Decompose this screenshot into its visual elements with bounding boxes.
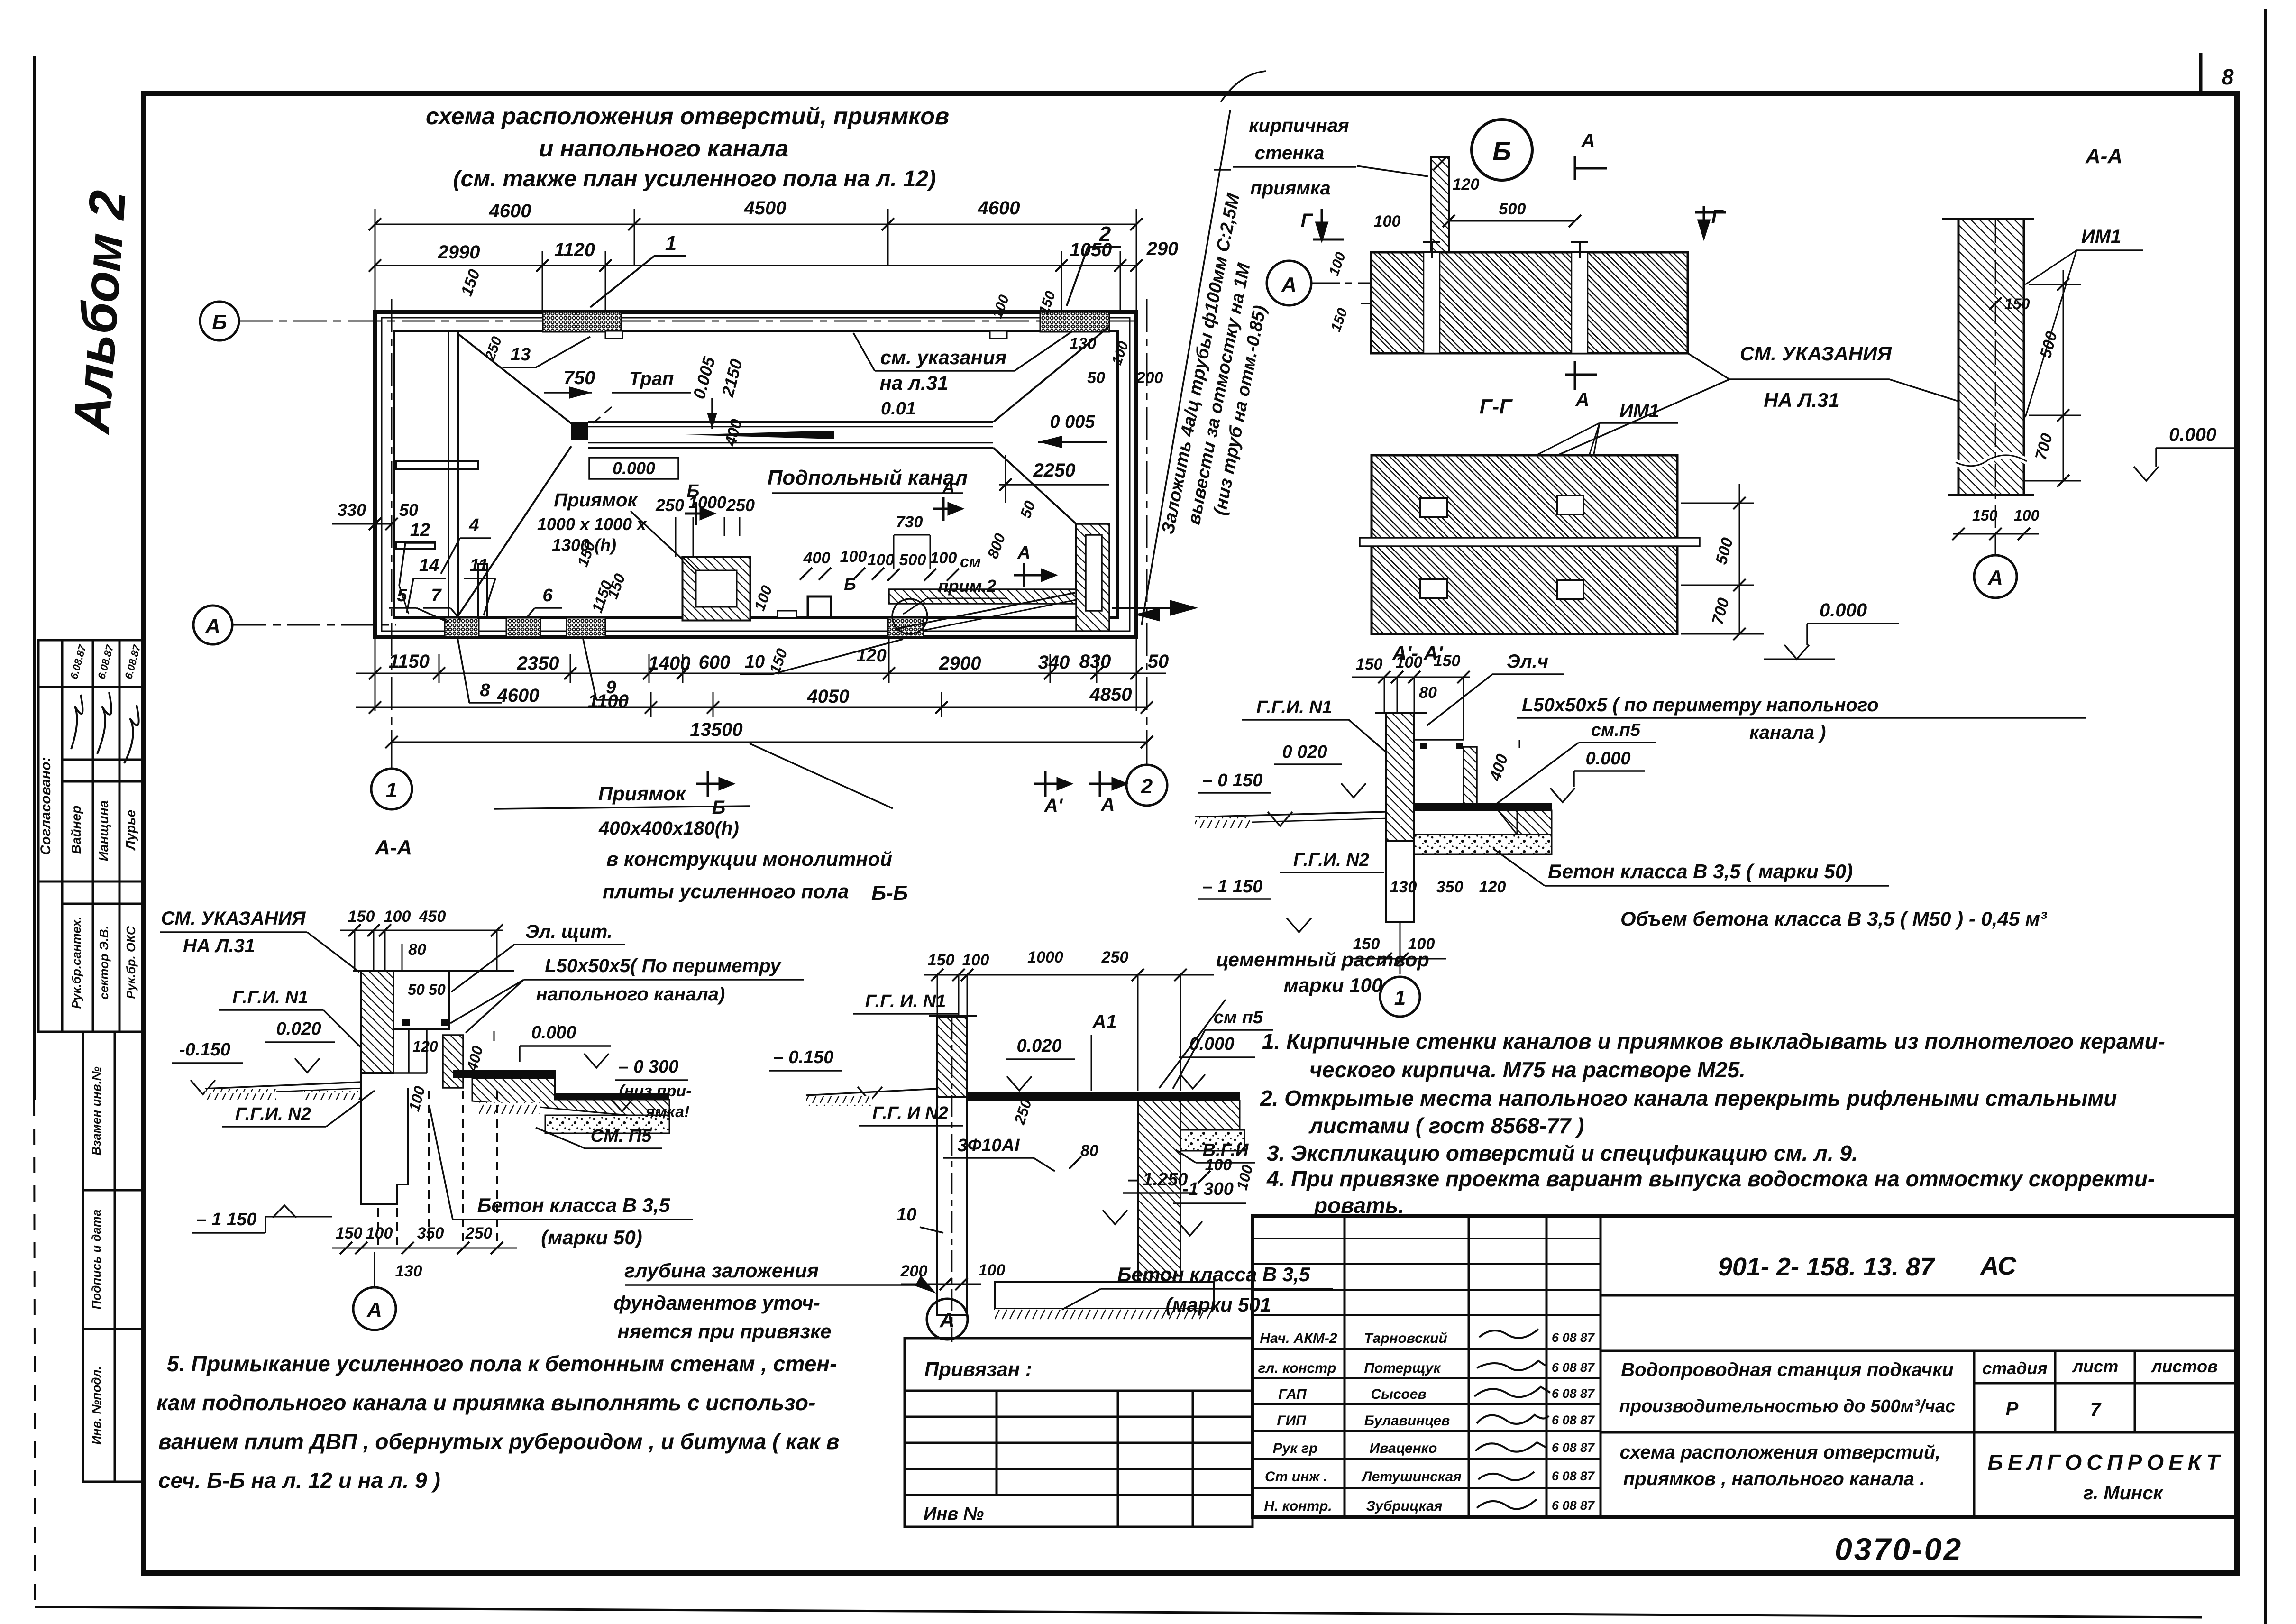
svg-text:130: 130	[395, 1262, 422, 1280]
label СМ П5 АА	[536, 1126, 662, 1148]
label -0 300 низ приямка	[610, 1057, 692, 1121]
svg-text:Б: Б	[712, 797, 725, 818]
svg-text:Б-Б: Б-Б	[871, 881, 908, 905]
level 0.000 at block	[1764, 600, 1899, 659]
svg-text:7: 7	[2090, 1399, 2102, 1420]
svg-text:13500: 13500	[690, 719, 742, 740]
dim 2250	[999, 455, 1109, 503]
svg-text:(марки 501: (марки 501	[1166, 1294, 1271, 1316]
corner channel hatched band	[889, 524, 1109, 631]
dim 400 rotated detail	[1486, 740, 1519, 783]
svg-text:приямков , напольного канала: приямков , напольного канала .	[1623, 1468, 1925, 1489]
svg-text:А: А	[1281, 273, 1297, 296]
svg-text:ванием плит ДВП , обернутых: ванием плит ДВП , обернутых рубероидом ,…	[158, 1429, 840, 1454]
AA top dim line	[340, 930, 503, 971]
level -1300	[1173, 1163, 1256, 1236]
opening mark 5	[389, 586, 448, 622]
svg-text:250: 250	[1101, 948, 1129, 966]
slope text 0.005 rotated	[689, 354, 719, 429]
svg-text:14: 14	[419, 556, 439, 576]
AA niche lines	[393, 1029, 427, 1073]
dimension row top-1	[375, 209, 1136, 313]
svg-text:250: 250	[726, 495, 755, 515]
svg-text:901- 2- 158. 13. 87: 901- 2- 158. 13. 87	[1718, 1253, 1936, 1281]
svg-text:50: 50	[429, 981, 446, 998]
wall opening hatch bottom-d	[888, 618, 924, 637]
svg-text:-1 300: -1 300	[1182, 1179, 1234, 1199]
svg-text:0.000: 0.000	[2169, 424, 2216, 445]
label ГГИ N1 ББ	[853, 991, 958, 1014]
title block columns	[1345, 1216, 1601, 1517]
svg-text:схема расположения отверстий,: схема расположения отверстий, приямков	[426, 103, 949, 129]
svg-text:0.000: 0.000	[1189, 1034, 1234, 1054]
pipe note leader	[1142, 110, 1230, 625]
svg-text:400х400х180(h): 400х400х180(h)	[598, 818, 739, 839]
funnel line lower	[458, 446, 571, 616]
svg-text:8: 8	[2222, 64, 2234, 89]
svg-text:730: 730	[896, 513, 923, 531]
svg-text:глубина заложения: глубина заложения	[624, 1259, 819, 1282]
top wall niche b	[990, 331, 1007, 339]
svg-text:Привязан :: Привязан :	[924, 1358, 1032, 1380]
svg-text:ИМ1: ИМ1	[1619, 401, 1659, 422]
svg-text:Эл. щит.: Эл. щит.	[525, 921, 613, 942]
svg-text:СМ. П5: СМ. П5	[591, 1126, 652, 1146]
svg-text:Рук гр: Рук гр	[1273, 1440, 1318, 1456]
svg-text:Ст инж .: Ст инж .	[1265, 1469, 1327, 1485]
floor channel walls	[588, 422, 993, 448]
svg-text:(марки 50): (марки 50)	[541, 1226, 642, 1248]
signature labels	[1258, 1330, 1337, 1514]
svg-text:Летушинская: Летушинская	[1361, 1469, 1462, 1485]
label ГГИ N1 АА	[219, 988, 360, 1047]
pipe note bracket	[1221, 71, 1266, 102]
svg-text:Б: Б	[844, 574, 856, 594]
axis bubble 1	[371, 769, 412, 809]
opening mark 8	[457, 638, 502, 703]
block dim line	[1681, 484, 1764, 634]
detail dims 150 100 bottom	[1352, 922, 1446, 974]
label см П5 ББ	[1173, 1008, 1273, 1089]
sheet number box	[2201, 53, 2234, 93]
svg-text:1000: 1000	[688, 493, 726, 512]
slab plan hatched	[1371, 252, 1688, 353]
pipe note rotated	[1158, 191, 1290, 544]
opening mark 4	[441, 515, 491, 574]
dim 330 left	[332, 500, 398, 530]
label ИМ1 right	[2025, 226, 2143, 417]
dim 500 pillar	[1443, 200, 1581, 227]
svg-text:А: А	[939, 1309, 955, 1332]
svg-text:80: 80	[408, 941, 426, 959]
section flag Б top	[685, 481, 713, 525]
svg-text:(низ при-: (низ при-	[619, 1082, 691, 1100]
svg-text:А: А	[366, 1298, 382, 1321]
svg-text:Г.Г. И N2: Г.Г. И N2	[872, 1103, 948, 1123]
section flag А' in plan	[933, 477, 961, 521]
svg-text:ровать.: ровать.	[1313, 1193, 1404, 1218]
svg-text:6 08 87: 6 08 87	[1552, 1330, 1595, 1345]
label СМ П5 detail	[1493, 720, 1656, 806]
svg-text:1: 1	[386, 779, 397, 802]
svg-text:Тарновский: Тарновский	[1364, 1330, 1447, 1346]
wall section А-А tall	[1942, 219, 2034, 536]
svg-text:Эл.ч: Эл.ч	[1507, 651, 1548, 672]
svg-text:Нач. АКМ-2: Нач. АКМ-2	[1260, 1330, 1337, 1346]
svg-text:100: 100	[1374, 212, 1401, 230]
svg-text:500: 500	[899, 551, 926, 569]
svg-text:290: 290	[1146, 239, 1179, 259]
svg-text:200: 200	[900, 1262, 928, 1280]
svg-text:А-А: А-А	[375, 836, 412, 859]
svg-text:4050: 4050	[807, 686, 850, 707]
opening mark 9	[583, 639, 628, 700]
slab anchor T left	[1423, 242, 1440, 258]
AA dim 50 50	[408, 981, 446, 998]
svg-text:Б: Б	[212, 311, 227, 334]
svg-text:1100: 1100	[588, 691, 629, 712]
BB pit bottom slab	[995, 1282, 1214, 1321]
paper right edge	[2264, 9, 2267, 1624]
leader to pit note	[750, 743, 893, 808]
svg-text:200: 200	[1136, 369, 1163, 387]
channel flow arrow	[685, 431, 834, 439]
svg-text:2250: 2250	[1033, 460, 1076, 481]
svg-text:0.000: 0.000	[1820, 600, 1867, 621]
svg-text:830: 830	[1079, 651, 1111, 672]
opening mark 13	[503, 337, 590, 367]
pit leader line	[631, 511, 683, 560]
BB floor right hatch	[1180, 1101, 1240, 1130]
svg-text:Инв. №подл.: Инв. №подл.	[89, 1366, 103, 1445]
label L50 АА	[450, 955, 804, 1033]
svg-text:120: 120	[856, 646, 886, 666]
svg-text:СМ. УКАЗАНИЯ: СМ. УКАЗАНИЯ	[161, 908, 306, 929]
svg-text:0 005: 0 005	[1050, 412, 1095, 432]
BB dims 150 100 1000 250	[928, 948, 1129, 969]
svg-text:А': А'	[942, 477, 960, 497]
channel right funnel lower	[993, 448, 1076, 524]
svg-text:цементный раствор: цементный раствор	[1216, 948, 1429, 971]
svg-text:Г.Г.И. N1: Г.Г.И. N1	[1256, 697, 1332, 717]
channel right funnel upper	[993, 326, 1109, 422]
svg-text:100: 100	[962, 951, 989, 969]
svg-text:лист: лист	[2072, 1357, 2118, 1376]
svg-text:А-А: А-А	[2085, 145, 2122, 168]
svg-text:80: 80	[1419, 684, 1437, 702]
AA lower floor	[555, 1093, 669, 1100]
level 0 020 detail	[1274, 742, 1366, 798]
label глубина заложения	[613, 1259, 936, 1342]
svg-text:и напольного канала: и напольного канала	[539, 135, 788, 162]
svg-text:см п5: см п5	[1214, 1008, 1263, 1028]
svg-text:ческого кирпича. М75 на раство: ческого кирпича. М75 на растворе М25.	[1309, 1057, 1746, 1082]
AA axis bubble	[353, 1252, 396, 1330]
svg-text:130: 130	[1070, 335, 1097, 353]
brick pillar	[1431, 157, 1479, 255]
svg-text:2: 2	[1099, 222, 1111, 246]
pit dim ticks	[676, 517, 740, 557]
level -1 150 АА	[192, 1205, 332, 1233]
axis line А	[233, 624, 396, 626]
svg-text:А: А	[1575, 389, 1590, 410]
svg-text:50: 50	[1087, 369, 1105, 387]
svg-text:А: А	[1101, 794, 1115, 815]
svg-text:150: 150	[1972, 507, 1998, 524]
svg-text:няется при привязке: няется при привязке	[617, 1320, 831, 1342]
svg-text:2900: 2900	[939, 653, 981, 674]
svg-text:3. Экспликацию отверстий и: 3. Экспликацию отверстий и спецификацию …	[1267, 1141, 1858, 1165]
detail dim line	[1352, 677, 1470, 740]
svg-text:на л.31: на л.31	[880, 372, 949, 394]
AA angle post	[443, 1031, 494, 1088]
svg-text:Бетон класса В 3,5: Бетон класса В 3,5	[1117, 1263, 1310, 1285]
opening mark 2	[1067, 222, 1121, 306]
label Подпольный канал	[768, 466, 968, 493]
svg-text:1000 х 1000 х: 1000 х 1000 х	[537, 514, 647, 534]
svg-text:НА Л.31: НА Л.31	[183, 936, 255, 956]
signature squiggles	[1474, 1329, 1550, 1509]
dim ticks row	[800, 568, 959, 581]
svg-text:100: 100	[366, 1224, 393, 1242]
svg-text:Подпись и дата: Подпись и дата	[89, 1210, 103, 1310]
svg-text:6 08 87: 6 08 87	[1552, 1469, 1595, 1483]
detail wall hatched	[1375, 713, 1427, 922]
opening mark 12	[399, 520, 436, 614]
svg-text:2. Открытые места напольного: 2. Открытые места напольного канала пере…	[1260, 1086, 2117, 1110]
label Бетон класса ББ	[1062, 1263, 1333, 1316]
title block left rows	[1253, 1239, 1601, 1488]
svg-text:1150: 1150	[389, 651, 430, 672]
svg-text:Лурье: Лурье	[123, 810, 138, 851]
svg-text:4500: 4500	[744, 198, 787, 219]
level -0.150 ББ	[769, 1047, 882, 1101]
svg-text:6: 6	[542, 586, 553, 606]
section flag А bottom	[1089, 771, 1125, 815]
label ГГИ N2 detail	[1280, 850, 1384, 872]
axis bubble А right	[1974, 536, 2017, 598]
svg-text:12: 12	[410, 520, 430, 540]
privyazan table	[905, 1338, 1253, 1527]
svg-text:– 0.150: – 0.150	[774, 1047, 834, 1067]
bottom wall niche	[778, 611, 796, 618]
svg-text:А1: А1	[1092, 1011, 1116, 1032]
svg-text:6 08 87: 6 08 87	[1552, 1386, 1595, 1401]
axis bubble 2	[1126, 765, 1167, 806]
svg-text:2: 2	[1141, 775, 1153, 798]
BB dim 100 right	[1198, 1156, 1232, 1183]
svg-text:0 020: 0 020	[1282, 742, 1327, 762]
approval signatures	[71, 692, 139, 763]
level 0.020 ББ	[1006, 1036, 1075, 1091]
svg-text:1. Кирпичные стенки каналов и: 1. Кирпичные стенки каналов и приямков в…	[1262, 1029, 2165, 1054]
leader указания to block	[1536, 379, 1729, 465]
svg-text:А: А	[205, 615, 220, 638]
svg-text:340: 340	[1038, 652, 1070, 673]
level 0.000 ББ	[1179, 1034, 1255, 1089]
svg-text:L50x50x5 ( по периметру наполь: L50x50x5 ( по периметру напольного	[1522, 695, 1879, 716]
leader указания to wall	[1688, 353, 1964, 403]
svg-text:(см. также план усиленного пол: (см. также план усиленного пола на л. 12…	[453, 166, 936, 192]
svg-text:Бетон класса В 3,5 ( марки 50: Бетон класса В 3,5 ( марки 50)	[1548, 860, 1853, 882]
svg-text:напольного канала): напольного канала)	[536, 984, 725, 1005]
svg-text:приямка: приямка	[1250, 178, 1330, 199]
AA underfloor hatch	[472, 1078, 669, 1119]
svg-text:– 1 150: – 1 150	[1203, 877, 1263, 897]
section flag А top	[1575, 130, 1607, 180]
svg-text:100: 100	[840, 548, 867, 566]
detail floor slab	[1414, 803, 1552, 854]
svg-text:см. указания: см. указания	[880, 346, 1007, 368]
label цементный раствор	[1159, 948, 1429, 1088]
label СМ УКАЗАНИЯ	[1740, 342, 1893, 411]
floor drain	[571, 422, 588, 440]
svg-text:2350: 2350	[517, 653, 559, 674]
dims 400 100 row	[803, 548, 981, 571]
svg-text:Н. контр.: Н. контр.	[1264, 1498, 1332, 1514]
BB dim 80	[1069, 1142, 1098, 1169]
svg-text:450: 450	[419, 908, 446, 926]
svg-text:Булавинцев: Булавинцев	[1364, 1413, 1450, 1429]
svg-text:кирпичная: кирпичная	[1249, 115, 1349, 136]
svg-text:1000: 1000	[1027, 948, 1063, 966]
svg-text:фундаментов уточ-: фундаментов уточ-	[613, 1292, 820, 1314]
label ГГИ N2 АА	[222, 1091, 375, 1127]
svg-text:500: 500	[1499, 200, 1526, 218]
BB bottom dims 200 100	[900, 1261, 1006, 1290]
approval dates	[68, 643, 143, 680]
level 0.020 АА	[265, 1019, 335, 1073]
dim 750 with arrow	[544, 367, 595, 399]
svg-text:ГИП: ГИП	[1277, 1413, 1307, 1429]
svg-text:– 0 150: – 0 150	[1203, 771, 1263, 790]
paper left edge	[34, 56, 35, 1608]
detail ground line	[1195, 812, 1386, 828]
label Бетон класса АА	[429, 1105, 693, 1248]
label ГГИ N1 detail	[1242, 697, 1388, 754]
detail angle channel	[1414, 740, 1477, 804]
pit square walls	[683, 557, 750, 620]
svg-text:350: 350	[417, 1224, 444, 1242]
svg-text:4: 4	[468, 515, 479, 535]
opening mark 6	[526, 586, 562, 618]
axis bubble А	[193, 606, 232, 644]
svg-text:Вайнер: Вайнер	[69, 806, 83, 854]
svg-text:Г-Г: Г-Г	[1480, 395, 1513, 418]
axis line Б	[239, 321, 1138, 322]
plan wall interior face	[394, 331, 1117, 618]
label приямка	[1214, 170, 1331, 199]
level -1.250	[1103, 1170, 1196, 1224]
opening mark 11	[464, 556, 495, 615]
svg-text:Приямок: Приямок	[554, 490, 638, 511]
svg-text:4600: 4600	[497, 685, 540, 706]
svg-text:50: 50	[399, 500, 418, 520]
AA floor slab black	[453, 1070, 555, 1078]
svg-text:ИМ1: ИМ1	[2081, 226, 2121, 247]
wall opening hatch top-left	[543, 312, 621, 332]
plan outer wall	[375, 312, 1136, 637]
trap circle on bottom wall	[892, 599, 927, 634]
svg-text:50: 50	[408, 981, 425, 998]
partition wall vertical	[448, 331, 458, 618]
svg-text:Взамен инв.№: Взамен инв.№	[89, 1066, 103, 1156]
svg-text:6 08 87: 6 08 87	[1552, 1360, 1595, 1375]
svg-text:100: 100	[1396, 653, 1423, 671]
leader to brick pillar	[1357, 166, 1428, 176]
svg-text:Б: Б	[1492, 136, 1511, 166]
label ВГИ	[1176, 1140, 1255, 1163]
svg-text:6 08 87: 6 08 87	[1552, 1498, 1595, 1513]
label Приямок 400	[494, 782, 750, 809]
svg-text:11: 11	[469, 556, 488, 576]
equipment square	[808, 596, 831, 618]
svg-text:НА Л.31: НА Л.31	[1764, 389, 1839, 411]
svg-text:– 1 150: – 1 150	[197, 1210, 257, 1229]
svg-text:Ианщина: Ианщина	[96, 800, 111, 861]
svg-text:Инв №: Инв №	[924, 1504, 984, 1524]
level -0.150 АА	[172, 1040, 243, 1094]
svg-text:Водопроводная станция подкач: Водопроводная станция подкачки	[1621, 1359, 1953, 1380]
opening mark 7	[423, 586, 461, 620]
svg-text:750: 750	[564, 367, 595, 388]
outlet arrow right	[1112, 601, 1195, 620]
AA floor step	[554, 1070, 556, 1093]
svg-text:150: 150	[1434, 652, 1461, 670]
svg-text:L50х50х5( По периметру: L50х50х5( По периметру	[545, 955, 781, 976]
svg-text:БЕЛГОСПРОЕКТ: БЕЛГОСПРОЕКТ	[1987, 1450, 2224, 1475]
svg-text:– 0 300: – 0 300	[619, 1057, 679, 1077]
label см указания	[853, 332, 1071, 371]
svg-text:120: 120	[1479, 878, 1506, 896]
svg-text:стадия: стадия	[1982, 1358, 2048, 1378]
label прим.2	[903, 576, 1007, 614]
svg-text:400: 400	[803, 549, 831, 567]
svg-text:г. Минск: г. Минск	[2083, 1483, 2163, 1504]
svg-text:150: 150	[348, 908, 375, 926]
partition stub	[478, 564, 487, 618]
label ГГИ N2 ББ	[859, 1103, 963, 1126]
detail dims 130 350 120	[1390, 878, 1506, 896]
svg-text:1: 1	[665, 232, 677, 255]
svg-text:Согласовано:: Согласовано:	[38, 757, 54, 855]
AA el panel box	[393, 971, 449, 1029]
svg-text:0.000: 0.000	[1585, 749, 1630, 769]
level box 0.000	[589, 458, 678, 479]
svg-text:10: 10	[745, 652, 765, 672]
block Г-Г hatched	[1360, 455, 1700, 634]
AA wall hatched	[353, 971, 514, 1073]
AA bottom dims	[336, 1224, 493, 1242]
AA foundation outline	[361, 1073, 497, 1245]
svg-text:прим.2: прим.2	[938, 576, 997, 596]
svg-text:гл. констр: гл. констр	[1258, 1360, 1336, 1376]
channel knee line	[1075, 524, 1077, 589]
svg-text:Г: Г	[1711, 206, 1724, 227]
wall opening hatch bottom-b	[506, 618, 540, 637]
svg-text:100: 100	[384, 908, 411, 926]
svg-text:плиты усиленного пола: плиты усиленного пола	[603, 880, 849, 902]
svg-text:0.000: 0.000	[531, 1023, 576, 1043]
svg-text:4600: 4600	[489, 201, 531, 221]
svg-text:Р: Р	[2006, 1398, 2019, 1419]
svg-text:А: А	[1017, 543, 1030, 563]
svg-text:0.000: 0.000	[613, 459, 655, 478]
label 3Ф10А1	[943, 1136, 1055, 1171]
svg-text:0.020: 0.020	[1016, 1036, 1061, 1056]
dimension row bottom-2	[356, 692, 1147, 717]
svg-text:250: 250	[465, 1224, 493, 1242]
